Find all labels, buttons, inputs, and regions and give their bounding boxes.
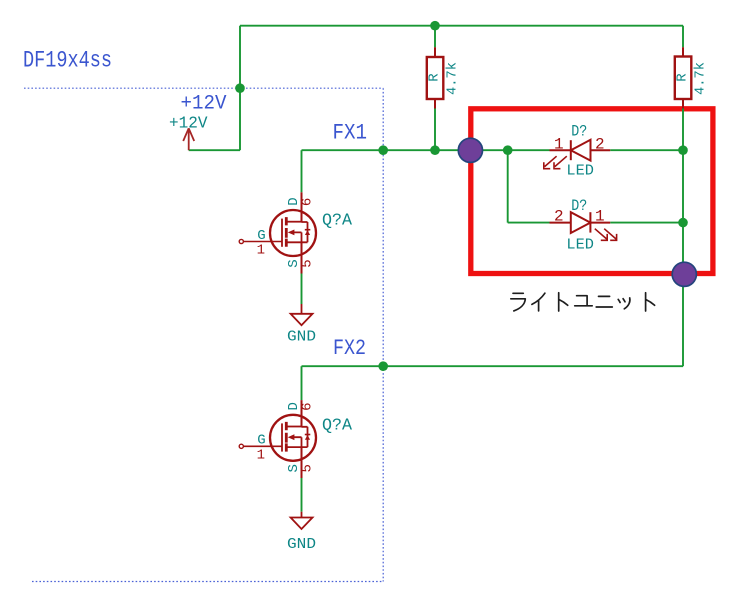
svg-text:5: 5 [300, 464, 316, 472]
svg-text:4.7k: 4.7k [445, 62, 461, 95]
resistor R2 [675, 47, 709, 108]
junction (508,150) [503, 145, 513, 155]
LED D1 labels [554, 122, 605, 179]
junction (383,150) [378, 145, 388, 155]
svg-text:LED: LED [566, 236, 594, 253]
annotation red box (light unit) [471, 109, 713, 274]
svg-text:LED: LED [566, 163, 594, 180]
svg-text:GND: GND [287, 329, 316, 345]
svg-text:+12V: +12V [181, 92, 228, 115]
svg-text:4.7k: 4.7k [692, 62, 708, 95]
svg-text:GND: GND [287, 537, 316, 553]
svg-text:D?: D? [571, 197, 587, 215]
wire Q2 source to GND [301, 478, 303, 512]
svg-text:6: 6 [300, 198, 316, 206]
wire LED D2 right to right rail [610, 222, 683, 224]
wire FX1 horizontal [302, 149, 550, 151]
wire resistor R1 bottom to FX1 [434, 109, 436, 151]
junction (683,223) [678, 218, 688, 228]
svg-text:1: 1 [257, 243, 265, 259]
wire Q1 source to GND [301, 274, 303, 305]
svg-text:6: 6 [300, 402, 316, 410]
node marker purple B [672, 262, 696, 286]
svg-text:G: G [257, 228, 265, 244]
svg-text:R: R [675, 73, 691, 82]
wire Q2 drain [301, 366, 303, 400]
svg-text:1: 1 [257, 448, 265, 464]
junction (435,150) [430, 145, 440, 155]
wire Q1 drain [301, 150, 303, 192]
svg-text:+12V: +12V [169, 115, 208, 134]
svg-text:DF19x4ss: DF19x4ss [23, 48, 112, 74]
node marker purple A [458, 138, 482, 162]
svg-text:1: 1 [554, 136, 564, 154]
power symbol +12V [183, 128, 194, 150]
svg-text:G: G [257, 433, 265, 449]
svg-text:Q?A: Q?A [322, 416, 353, 435]
svg-text:2: 2 [595, 136, 605, 154]
junction (435,26) [430, 21, 440, 31]
ground GND2 [287, 512, 316, 553]
svg-text:R: R [427, 73, 443, 82]
wire right rail below R2 down to FX2 [682, 109, 684, 367]
wire inner branch vertical [507, 150, 509, 222]
connector J1 DF19x4ss dashed body [24, 88, 383, 581]
junction (683,150) [678, 145, 688, 155]
LED D2 [550, 212, 611, 233]
svg-text:2: 2 [554, 208, 564, 226]
wire FX2 horizontal [302, 365, 684, 367]
svg-text:FX1: FX1 [333, 120, 368, 145]
wire to +12V power [189, 149, 240, 151]
junction (383,366) [378, 361, 388, 371]
wire left vertical [239, 26, 241, 151]
LED D2 labels [554, 197, 605, 254]
wire LED D1 right to right rail [610, 149, 683, 151]
LED D1 [550, 140, 611, 161]
svg-text:D?: D? [571, 122, 587, 140]
ground GND1 [287, 304, 316, 345]
junction (240,88) [235, 83, 245, 93]
svg-text:FX2: FX2 [333, 336, 366, 361]
transistor Q2 (Q?A) [239, 400, 353, 478]
svg-text:1: 1 [595, 208, 605, 226]
wire inner branch horizontal to LED D2 [508, 222, 550, 224]
wire right rail top [682, 26, 684, 48]
svg-text:5: 5 [300, 259, 316, 267]
svg-text:Q?A: Q?A [322, 212, 353, 231]
wire top horizontal [240, 25, 683, 27]
resistor R1 [427, 47, 461, 108]
wire resistor R1 top [434, 26, 436, 48]
caption light unit katakana [511, 293, 655, 311]
transistor Q1 (Q?A) [239, 192, 353, 273]
